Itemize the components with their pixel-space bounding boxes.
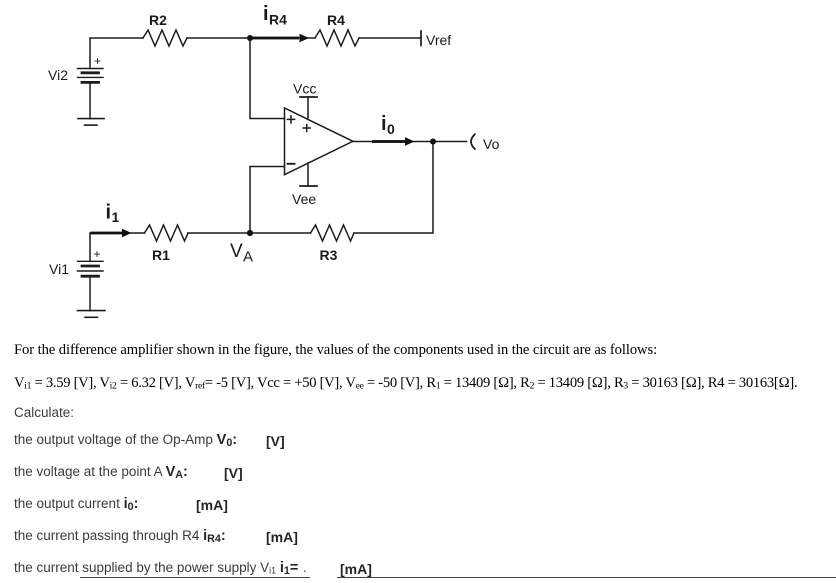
circuit schematic xyxy=(0,0,836,336)
current arrow i1 xyxy=(91,229,132,238)
svg-text:0: 0 xyxy=(387,121,395,137)
svg-text:i: i xyxy=(106,202,112,224)
svg-text:i: i xyxy=(381,113,387,135)
wire: node A to R3 xyxy=(250,232,311,234)
op-amp + input mark xyxy=(287,116,294,123)
wire: Vi1 top lead xyxy=(89,233,91,261)
ground below Vi2 xyxy=(78,119,104,126)
question 3 xyxy=(14,496,138,512)
wire: node A up to op-amp inverting input xyxy=(250,167,285,234)
wire: Vi1 bottom lead xyxy=(89,277,91,310)
wire: Vi2 bottom lead xyxy=(89,84,91,119)
op-amp - input mark xyxy=(288,163,295,165)
current arrow i0 xyxy=(372,137,415,146)
question: Calculate xyxy=(14,405,74,420)
wire: R1 to node A xyxy=(188,232,250,234)
terminal Vo arc xyxy=(471,134,475,149)
answer underline segment 2 xyxy=(337,577,836,578)
current arrow iR4 xyxy=(252,34,309,43)
svg-text:A: A xyxy=(243,249,253,266)
answer underline segment 1 xyxy=(80,577,310,578)
output node junction dot xyxy=(430,139,436,145)
svg-text:Vi1: Vi1 xyxy=(49,261,69,277)
source Vi1 battery plates xyxy=(78,261,104,276)
op-amp U1 triangle xyxy=(285,108,353,175)
wire: junction down to op-amp noninverting input xyxy=(250,38,285,119)
resistor R4 xyxy=(315,30,359,46)
svg-text:Vo: Vo xyxy=(483,136,500,152)
svg-text:R3: R3 xyxy=(320,247,338,263)
node A junction dot xyxy=(247,230,253,236)
svg-text:1: 1 xyxy=(112,209,120,225)
svg-text:R4: R4 xyxy=(269,12,287,28)
svg-text:+: + xyxy=(94,54,101,68)
power Vee lead and bar xyxy=(307,163,309,186)
wire: R2 to junction node xyxy=(187,37,250,39)
wire: Vi2 top lead up to top rail xyxy=(90,38,143,69)
wire: output node down to R3 xyxy=(354,142,433,234)
svg-text:Vcc: Vcc xyxy=(293,81,316,97)
wire: i1 arrow stem to R1 xyxy=(91,232,145,234)
svg-text:Vi2: Vi2 xyxy=(48,67,68,83)
question 4 xyxy=(14,528,226,544)
svg-text:Vee: Vee xyxy=(292,191,316,207)
problem statement line 2 xyxy=(14,375,797,392)
question 2 xyxy=(14,464,188,480)
svg-text:i: i xyxy=(263,3,269,25)
op-amp inner + mark xyxy=(303,125,310,132)
svg-text:Vref: Vref xyxy=(426,32,451,48)
wire: R4 to Vref terminal xyxy=(359,37,421,39)
resistor R2 xyxy=(143,30,187,46)
question 1 xyxy=(14,432,237,448)
source Vi2 battery plates xyxy=(78,69,104,83)
power Vcc lead and bar xyxy=(307,97,309,120)
svg-text:+: + xyxy=(94,247,101,261)
svg-text:V: V xyxy=(230,241,243,262)
ground below Vi1 xyxy=(78,311,106,318)
resistor R1 xyxy=(145,225,189,241)
junction node at R2/R4 xyxy=(247,35,253,41)
resistor R3 xyxy=(311,225,355,241)
terminal Vref tick xyxy=(420,31,422,46)
question 5 xyxy=(14,560,298,576)
svg-text:R4: R4 xyxy=(327,12,345,28)
svg-text:R1: R1 xyxy=(152,247,170,263)
wire: op-amp output to Vo terminal xyxy=(353,141,467,143)
svg-text:R2: R2 xyxy=(149,12,167,28)
wire: junction to R4 xyxy=(250,37,315,39)
problem statement line 1 xyxy=(14,342,657,359)
